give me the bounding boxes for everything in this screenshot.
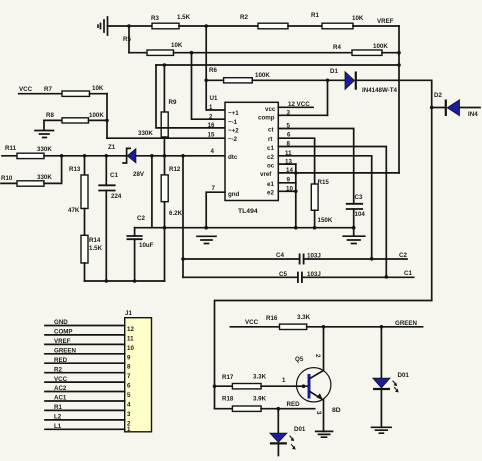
wire R6 row from x206 node: [206, 79, 223, 81]
svg-text:VCC: VCC: [19, 86, 33, 93]
svg-text:D2: D2: [434, 92, 442, 99]
resistor R9: [138, 65, 177, 156]
wire pin5 ct row to C3: [278, 129, 353, 204]
svg-text:c1: c1: [267, 145, 274, 152]
node gnd-rail/x295.8: [294, 226, 298, 230]
svg-text:7: 7: [212, 185, 216, 192]
J1 pin 9 wire / net GREEN: [45, 348, 131, 362]
wire emitter to ground: [323, 400, 325, 432]
diode D2: [432, 92, 480, 118]
node R18row/D01: [277, 407, 281, 411]
svg-text:comp: comp: [258, 115, 275, 122]
resistor R18: [222, 396, 267, 412]
resistor R5: [123, 36, 183, 55]
wire R3 node down to pin1 row: [206, 26, 225, 110]
node gnd-rail/C3: [352, 226, 356, 230]
svg-text:7: 7: [127, 373, 131, 380]
svg-text:15: 15: [208, 132, 215, 139]
J1 pin 8 wire / net RED: [45, 357, 131, 371]
svg-text:~+1: ~+1: [228, 110, 239, 117]
wire x152 mid-rail to gnd rail: [151, 156, 153, 228]
wire R11 to zener: [44, 155, 127, 157]
ground (below C3): [343, 228, 365, 244]
wire bottom rail: [85, 280, 165, 282]
svg-text:224: 224: [111, 193, 122, 200]
node pin14/x295.8: [294, 171, 298, 175]
resistor R13: [68, 156, 88, 214]
svg-text:4: 4: [211, 148, 215, 155]
svg-text:dtc: dtc: [228, 154, 238, 161]
svg-text:330K: 330K: [37, 146, 52, 153]
op-amp U1 TL494 body: [225, 102, 278, 215]
wire vertical x129 rail1 to rail2: [128, 26, 130, 53]
svg-text:R1: R1: [54, 404, 62, 411]
svg-text:IN4148W-T4: IN4148W-T4: [362, 87, 398, 94]
svg-text:R2: R2: [54, 366, 62, 373]
svg-text:4: 4: [127, 402, 131, 409]
svg-text:3.9K: 3.9K: [253, 396, 267, 403]
resistor R6: [209, 67, 270, 83]
svg-text:3: 3: [315, 411, 322, 415]
resistor R12: [161, 156, 182, 281]
svg-text:330K: 330K: [138, 130, 153, 137]
wire pin10 stub: [278, 190, 296, 192]
svg-text:100K: 100K: [373, 43, 388, 50]
svg-text:104: 104: [355, 211, 366, 218]
svg-text:D1: D1: [330, 68, 338, 75]
capacitor C3: [346, 194, 366, 228]
svg-text:47K: 47K: [68, 207, 80, 214]
svg-text:150K: 150K: [318, 217, 333, 224]
svg-text:C5: C5: [279, 271, 287, 278]
led D01 (green): [373, 372, 410, 427]
resistor R7: [44, 85, 104, 96]
wire collector riser: [323, 327, 325, 370]
J1 pin 11 wire / net COMP: [45, 329, 134, 343]
svg-text:330K: 330K: [37, 174, 52, 181]
wire rail3: [156, 64, 399, 66]
wire pin13 oc stub: [278, 163, 296, 165]
wire R5 node down to pin2 row: [192, 53, 226, 120]
wire rail2 left: [129, 52, 147, 54]
capacitor C2: [127, 215, 154, 281]
node base: [302, 384, 306, 388]
J1 pin 1 wire / net L1: [45, 423, 131, 433]
node gnd-rail/pin7: [204, 226, 208, 230]
node x214.5/R17: [213, 384, 217, 388]
resistor R3: [151, 14, 191, 29]
U1 left pin labels: [228, 110, 240, 198]
svg-text:R17: R17: [222, 374, 234, 381]
wire R6 to D1: [252, 79, 345, 81]
J1 pin 5 wire / net AC2: [45, 385, 131, 399]
svg-text:gnd: gnd: [228, 191, 240, 198]
wire VCC to R16: [230, 326, 279, 328]
resistor R15: [311, 179, 333, 228]
svg-text:U1: U1: [210, 95, 218, 102]
svg-text:10uF: 10uF: [139, 242, 154, 249]
node x431.7/D2: [430, 106, 434, 110]
svg-text:IN4: IN4: [468, 111, 478, 118]
wire pin15 row: [107, 137, 225, 139]
wire R18 row: [215, 408, 233, 410]
ground (below R8 left): [35, 120, 54, 137]
svg-text:12: 12: [127, 326, 134, 333]
wire pin11 c2 row: [278, 156, 371, 259]
svg-text:AC2: AC2: [54, 385, 67, 392]
node mid-rail/R12: [163, 154, 167, 158]
node rail2/x399: [397, 51, 401, 55]
node D01 green riser: [380, 325, 384, 329]
svg-text:R14: R14: [89, 237, 101, 244]
resistor R16: [266, 314, 311, 330]
svg-text:D01: D01: [294, 426, 306, 433]
node mid-rail/R13: [83, 154, 87, 158]
svg-text:6.2K: 6.2K: [169, 210, 183, 217]
svg-text:11: 11: [127, 335, 134, 342]
zener Z1: [108, 144, 145, 178]
svg-text:R16: R16: [266, 315, 278, 322]
node x183/C4: [181, 257, 185, 261]
ground (top-left, rotated): [98, 17, 108, 35]
svg-text:100K: 100K: [255, 72, 270, 79]
ground (Q5 emitter): [316, 431, 333, 437]
wire pin8 c1 row: [278, 147, 386, 277]
svg-text:R11: R11: [5, 145, 17, 152]
node mid-rail/C1: [105, 154, 109, 158]
node gnd-rail/R12: [163, 226, 167, 230]
svg-text:GND: GND: [54, 319, 68, 326]
svg-text:R1: R1: [311, 12, 319, 19]
resistor R14: [81, 209, 103, 282]
node mid-rail/R10: [60, 154, 64, 158]
wire x183 vertical (mid-rail to C5 row): [182, 156, 184, 277]
resistor R2: [240, 14, 288, 29]
wire rail3 corner to pin16 row: [156, 65, 225, 128]
svg-text:VCC: VCC: [54, 376, 68, 383]
svg-text:R6: R6: [209, 67, 217, 74]
wire R17 row: [215, 385, 233, 387]
J1 pin 3 wire / net R1: [45, 404, 131, 418]
wire R18 to RED end: [261, 408, 315, 410]
svg-text:COMP: COMP: [54, 329, 73, 336]
node C4row/pin11 riser: [370, 257, 374, 261]
J1 pin 6 wire / net VCC: [45, 376, 131, 390]
svg-text:R3: R3: [151, 15, 159, 22]
node x107/R8: [105, 119, 109, 123]
wire R16 to GREEN: [307, 326, 423, 328]
svg-text:D01: D01: [398, 372, 410, 379]
svg-text:L1: L1: [54, 423, 62, 430]
svg-text:1.5K: 1.5K: [177, 14, 191, 21]
svg-text:5: 5: [127, 392, 131, 399]
svg-text:VREF: VREF: [54, 338, 71, 345]
J1 pin 2 wire / net L2: [45, 414, 131, 428]
wire R3 to R2: [179, 25, 258, 27]
svg-text:R5: R5: [123, 36, 131, 43]
wire R10 row: [1, 182, 17, 184]
svg-text:R9: R9: [169, 99, 177, 106]
svg-text:AC1: AC1: [54, 395, 67, 402]
svg-text:10K: 10K: [171, 42, 183, 49]
svg-text:R8: R8: [46, 112, 54, 119]
wire VCC to R7: [19, 93, 62, 95]
svg-text:1: 1: [209, 104, 213, 111]
svg-text:rt: rt: [268, 136, 272, 143]
svg-text:10K: 10K: [92, 85, 104, 92]
wire pin12 stub: [278, 106, 313, 108]
wire loop bottom: [215, 301, 432, 409]
node mid-rail/x152: [150, 154, 154, 158]
svg-text:2: 2: [209, 114, 213, 121]
J1 pin 12 wire / net GND: [45, 319, 134, 333]
wire pin14 vref row: [278, 172, 399, 174]
wire pin7 gnd stub: [206, 192, 225, 228]
svg-text:C2: C2: [399, 252, 407, 259]
wire x295.8 vertical (oc to gnd rail): [295, 164, 297, 228]
svg-text:100K: 100K: [89, 112, 104, 119]
svg-text:Z1: Z1: [108, 144, 116, 151]
svg-text:R4: R4: [333, 44, 341, 51]
wire R10 to mid-rail: [44, 156, 62, 184]
svg-text:16: 16: [208, 122, 215, 129]
svg-text:6: 6: [127, 383, 131, 390]
wire R1 to VREF corner: [353, 25, 399, 27]
svg-text:VREF: VREF: [377, 18, 394, 25]
svg-text:R10: R10: [1, 175, 13, 182]
svg-text:GREEN: GREEN: [395, 320, 418, 327]
svg-text:R2: R2: [240, 14, 248, 21]
wire gnd rail (C2 top to C3): [135, 227, 354, 229]
wire R8 to x107: [89, 119, 108, 121]
svg-text:R13: R13: [69, 166, 81, 173]
svg-text:28V: 28V: [133, 171, 145, 178]
svg-text:2: 2: [314, 354, 321, 358]
resistor R1: [311, 12, 364, 29]
wire R5 to R4: [174, 52, 353, 54]
svg-text:L2: L2: [54, 414, 62, 421]
svg-text:9: 9: [127, 354, 131, 361]
svg-text:J1: J1: [125, 310, 132, 317]
node mid-rail/x183: [181, 154, 185, 158]
wire pin6 rt row to R15: [278, 138, 314, 184]
node rail3/x399: [397, 63, 401, 67]
node C5row/pin8 riser: [385, 275, 389, 279]
svg-text:3.3K: 3.3K: [297, 314, 311, 321]
J1 pin 10 wire / net VREF: [45, 338, 134, 352]
U1 right pin labels: [258, 106, 276, 197]
svg-text:1: 1: [127, 426, 131, 433]
svg-text:3.3K: 3.3K: [253, 374, 267, 381]
resistor R10: [1, 174, 52, 186]
wire x431.7 vertical: [431, 80, 433, 300]
svg-text:C3: C3: [355, 194, 363, 201]
resistor R17: [222, 374, 267, 389]
resistor R4: [333, 43, 388, 55]
diode D1: [330, 68, 398, 94]
resistor R11: [5, 145, 52, 159]
wire gnd to R8: [44, 119, 62, 121]
svg-text:~+2: ~+2: [228, 128, 239, 135]
svg-text:vref: vref: [260, 171, 272, 178]
svg-text:e2: e2: [267, 190, 274, 197]
svg-text:TL494: TL494: [238, 208, 258, 215]
wire R17 to base: [261, 385, 307, 387]
svg-text:RED: RED: [287, 401, 301, 408]
svg-text:8D: 8D: [332, 407, 341, 414]
wire R2 to R1: [288, 25, 322, 27]
node rail1/x129: [127, 24, 131, 28]
svg-text:e1: e1: [267, 181, 274, 188]
wire R4 to VREF vertical: [382, 52, 399, 54]
ground (below D01 green): [372, 427, 392, 433]
wire ground to rail1: [108, 25, 153, 27]
svg-text:GREEN: GREEN: [54, 348, 77, 355]
node x206/R6: [204, 79, 208, 83]
node gnd-rail/R15: [313, 226, 317, 230]
wire D01 red riser: [277, 409, 279, 434]
node rail2/x191.5: [190, 51, 194, 55]
capacitor C5: [183, 271, 414, 283]
svg-text:~-2: ~-2: [228, 136, 238, 143]
transistor Q5: [282, 354, 341, 415]
svg-text:C1: C1: [404, 270, 412, 277]
svg-text:1.5K: 1.5K: [89, 245, 103, 252]
wire pin9 stub: [278, 182, 296, 184]
svg-text:VCC: VCC: [245, 319, 259, 326]
svg-text:R18: R18: [222, 396, 234, 403]
resistor R8: [46, 112, 104, 123]
wire VREF vertical x399: [398, 26, 400, 173]
svg-text:ct: ct: [268, 127, 274, 134]
node rail3/R9: [163, 63, 167, 67]
node bottom/C2: [133, 279, 137, 283]
svg-text:3: 3: [127, 411, 131, 418]
wire D1 to x431.7 corner: [356, 79, 432, 81]
svg-text:10: 10: [127, 345, 134, 352]
wire mid-rail left (R11 input): [2, 155, 17, 157]
svg-text:R15: R15: [318, 179, 330, 186]
svg-text:RED: RED: [54, 357, 68, 364]
svg-text:R7: R7: [44, 86, 52, 93]
wire vertical x107 to pin15 row: [106, 94, 108, 139]
wire comp riser to D1 node: [327, 80, 329, 115]
connector J1 body: [125, 310, 152, 432]
svg-text:C2: C2: [137, 215, 145, 222]
node rail1/x206: [204, 24, 208, 28]
svg-text:1: 1: [282, 377, 286, 384]
svg-text:c2: c2: [267, 154, 274, 161]
svg-text:C1: C1: [110, 172, 118, 179]
wire pin3 comp row: [278, 114, 327, 116]
J1 pin 4 wire / net AC1: [45, 395, 131, 409]
svg-text:R12: R12: [169, 166, 181, 173]
svg-text:C4: C4: [276, 252, 284, 259]
wire GREEN node to D01 green: [380, 327, 382, 378]
svg-text:vcc: vcc: [265, 106, 276, 113]
node bottom/C1: [105, 279, 109, 283]
J1 pin 7 wire / net R2: [45, 366, 131, 380]
capacitor C1: [98, 156, 122, 281]
svg-text:Q5: Q5: [295, 356, 304, 363]
node pin10/x295.8: [294, 190, 298, 194]
svg-text:10K: 10K: [352, 15, 364, 22]
wire R7 to x107: [90, 93, 108, 95]
wire zener to IC pin4: [136, 155, 225, 157]
svg-text:8: 8: [127, 364, 131, 371]
capacitor C4: [183, 252, 407, 265]
svg-text:~-1: ~-1: [228, 119, 238, 126]
led D01 (red): [270, 426, 306, 456]
node D1row/comp: [326, 79, 330, 83]
ground (below U1): [197, 236, 216, 243]
svg-text:oc: oc: [267, 163, 275, 170]
node Q5 collector riser: [322, 325, 326, 329]
